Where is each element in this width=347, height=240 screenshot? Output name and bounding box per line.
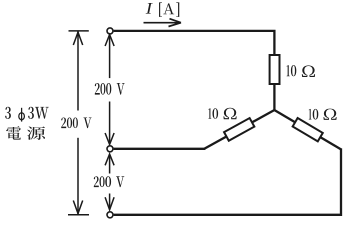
label 10 ohm (R2 left) [208, 108, 236, 119]
wire: resistor R1 bottom to neutral star point [273, 83, 275, 111]
resistor R3 10 ohm (right leg, rotated) [293, 118, 323, 141]
dimension arrow: upper 200 V (between U and V) [105, 35, 114, 145]
label kanji GEN (source) of 電源 [27, 126, 45, 139]
wire: middle phase from terminal V to left leg bend [114, 148, 206, 150]
terminal node V (middle) [107, 146, 113, 152]
wire: left diagonal leg from star point [204, 110, 275, 149]
resistor R1 10 ohm (vertical) [270, 55, 280, 84]
label 10 ohm (R3 right) [309, 109, 337, 120]
label 3phi3W (source designation line 1) [5, 107, 49, 119]
label 10 ohm (R1 top) [287, 65, 315, 77]
terminal node U (top) [107, 28, 113, 34]
resistor R2 10 ohm (left leg, rotated) [224, 118, 254, 141]
dimension arrow: overall 200 V (left side) [68, 31, 89, 215]
terminal node W (bottom) [107, 212, 113, 218]
label 200 V (lower) [94, 176, 125, 187]
label 200 V (overall) [61, 118, 91, 129]
symbol phi in 3phi3W [19, 108, 25, 122]
label I [A] [146, 2, 180, 17]
label kanji DEN (electric) of 電源 [6, 126, 21, 139]
label 200 V (upper) [95, 83, 125, 95]
dimension arrow: lower 200 V (between V and W) [105, 154, 114, 210]
current arrow I [144, 19, 182, 27]
wire: right leg down and bottom phase to terminal W [114, 148, 341, 214]
wire: right diagonal leg from star point [274, 110, 341, 150]
wire: top phase from terminal U to resistor R1 [114, 31, 275, 56]
